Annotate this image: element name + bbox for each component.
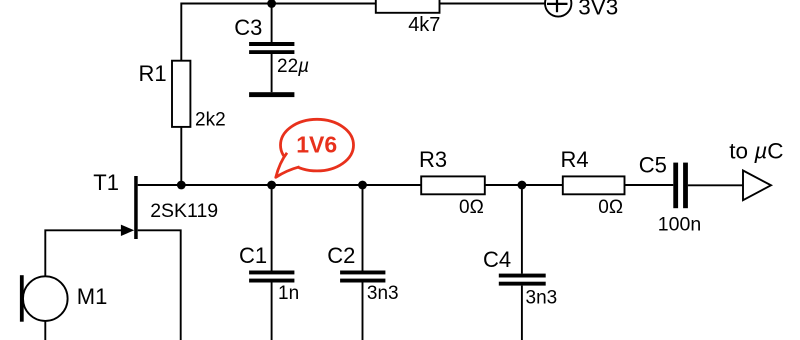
transistor T1 gate arrow bbox=[121, 225, 134, 236]
svg-text:3n3: 3n3 bbox=[526, 288, 558, 309]
svg-text:22µ: 22µ bbox=[277, 56, 309, 77]
wire: gate of T1 from M1 bbox=[45, 230, 122, 276]
wire: top rail from R1 corner to 4k7 resistor left bbox=[181, 4, 375, 61]
wire: C4 node to R4 bbox=[522, 184, 563, 186]
capacitor C4 bbox=[499, 274, 546, 286]
node: junction dot at C2 bbox=[358, 181, 367, 190]
capacitor C5 (series) bbox=[673, 163, 688, 209]
node: junction dot at C1 bbox=[267, 181, 276, 190]
svg-text:0Ω: 0Ω bbox=[459, 197, 484, 218]
wire: R3 to C4 node bbox=[485, 184, 522, 186]
capacitor C1 top wire bbox=[271, 185, 273, 271]
microphone M1 body bbox=[23, 276, 68, 321]
svg-text:R4: R4 bbox=[561, 147, 589, 172]
svg-text:2SK119: 2SK119 bbox=[150, 200, 218, 222]
svg-text:C1: C1 bbox=[239, 243, 267, 268]
wire: top rail from 4k7 resistor right to 3V3 symbol bbox=[440, 3, 545, 5]
capacitor C1 bbox=[249, 271, 294, 283]
svg-text:C2: C2 bbox=[327, 243, 355, 268]
svg-text:R3: R3 bbox=[419, 147, 447, 172]
resistor 4k7 (top, horizontal, designator cropped) bbox=[376, 0, 440, 13]
wire: R1 bottom to drain node bbox=[180, 127, 182, 185]
svg-text:C4: C4 bbox=[483, 247, 511, 272]
svg-text:C3: C3 bbox=[234, 15, 262, 40]
capacitor C4 bottom wire bbox=[521, 286, 523, 340]
output arrow to µC bbox=[743, 171, 771, 201]
svg-text:1V6: 1V6 bbox=[296, 132, 337, 158]
capacitor C1 bottom wire bbox=[271, 283, 273, 340]
svg-text:2k2: 2k2 bbox=[195, 110, 226, 131]
ground bar below C3 bbox=[249, 92, 294, 97]
resistor R1 (vertical) bbox=[172, 61, 190, 127]
svg-text:M1: M1 bbox=[77, 284, 108, 309]
svg-text:100n: 100n bbox=[658, 214, 701, 236]
capacitor C2 bottom wire bbox=[362, 283, 364, 340]
capacitor C2 bbox=[340, 271, 385, 283]
node: junction dot at C4 bbox=[518, 181, 527, 190]
wire: R4 to C5 bbox=[625, 184, 674, 186]
wire: C3 to ground bar bbox=[271, 54, 273, 92]
resistor R4 (horizontal) bbox=[563, 176, 625, 194]
svg-text:0Ω: 0Ω bbox=[598, 197, 623, 218]
wire: C5 to output arrow bbox=[688, 184, 743, 186]
svg-text:to µC: to µC bbox=[729, 139, 783, 164]
wire: T1 drain to main rail bbox=[138, 184, 182, 186]
capacitor C2 top wire bbox=[362, 185, 364, 271]
microphone M1 membrane bar bbox=[20, 275, 24, 322]
capacitor C4 top wire bbox=[521, 185, 523, 274]
node: junction dot on top rail above C3 bbox=[267, 0, 276, 8]
svg-text:3V3: 3V3 bbox=[578, 0, 618, 20]
node: junction dot at R1/drain bbox=[177, 181, 186, 190]
svg-text:4k7: 4k7 bbox=[408, 14, 440, 36]
svg-text:1n: 1n bbox=[278, 283, 299, 304]
wire: M1 bottom lead bbox=[44, 321, 46, 340]
capacitor C3 bbox=[249, 42, 294, 54]
wire: main rail C2 node to R3 bbox=[363, 184, 422, 186]
wire: T1 source to down leg bbox=[138, 230, 181, 340]
svg-text:R1: R1 bbox=[139, 61, 167, 86]
capacitor C3 top wire bbox=[271, 4, 273, 43]
svg-text:3n3: 3n3 bbox=[367, 283, 399, 304]
wire: main rail C1 node to C2 node bbox=[272, 184, 363, 186]
svg-text:C5: C5 bbox=[639, 153, 667, 178]
resistor R3 (horizontal) bbox=[421, 176, 485, 194]
svg-text:T1: T1 bbox=[93, 170, 119, 195]
callout bubble 1V6 (tail) bbox=[276, 153, 300, 178]
wire: main rail drain node to C1 node bbox=[181, 184, 271, 186]
callout bubble 1V6 (ellipse) bbox=[281, 119, 354, 171]
power +3V3 symbol bbox=[545, 0, 571, 17]
transistor T1 channel bar bbox=[134, 176, 138, 239]
